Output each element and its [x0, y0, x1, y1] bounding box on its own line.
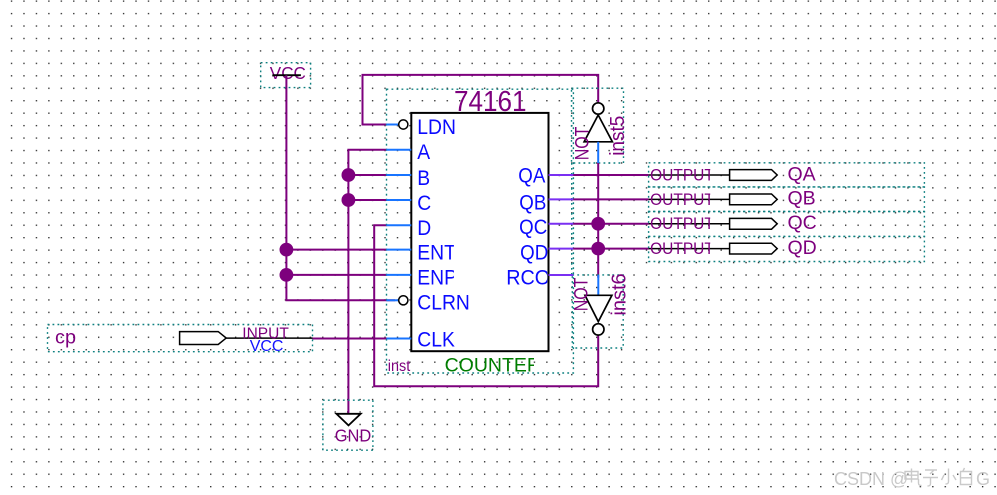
wire LDN feedback from inst5 output: [363, 75, 599, 125]
junction dot C: [342, 193, 356, 207]
ground symbol GND: [323, 400, 373, 450]
wire QD to output: [549, 248, 649, 250]
wire C branch: [348, 199, 387, 201]
pin LDN stub + bubble: [387, 124, 399, 126]
NOT gate inst6: [570, 273, 630, 348]
symbol name COUNTER: [445, 354, 541, 376]
wire inst5/inst6 input net: [597, 163, 599, 278]
svg-text:OUTPUT: OUTPUT: [650, 167, 714, 185]
svg-text:inst6: inst6: [609, 273, 631, 315]
wire D feedback from inst6 output: [374, 225, 598, 386]
input pin cp: [48, 325, 313, 356]
wire QA to output: [549, 174, 649, 176]
pin RCO label: [506, 266, 550, 290]
wire QB to output: [549, 198, 649, 200]
svg-text:B: B: [417, 168, 430, 191]
svg-text:ENP: ENP: [417, 267, 457, 290]
chip body: [411, 113, 548, 351]
svg-text:COUNTER: COUNTER: [445, 354, 541, 376]
junction dot B: [342, 168, 356, 182]
pin B stub: [387, 174, 412, 176]
pin CLRN stub + bubble: [387, 299, 399, 301]
74161 counter inst: [387, 85, 574, 377]
svg-text:CLRN: CLRN: [417, 292, 470, 315]
NOT gate inst5: [571, 88, 629, 163]
net selection box edge: [571, 163, 573, 275]
wire net A/B/C down to GND: [348, 150, 387, 414]
svg-text:QC: QC: [788, 212, 817, 234]
pin D stub: [387, 224, 412, 226]
svg-text:QD: QD: [520, 241, 548, 264]
svg-text:G: G: [976, 469, 990, 489]
output pin QA: [649, 163, 925, 187]
wire B branch: [348, 174, 387, 176]
svg-text:QB: QB: [519, 191, 546, 214]
svg-text:C: C: [417, 193, 431, 216]
junction dot QD net: [591, 242, 605, 256]
svg-text:OUTPUT: OUTPUT: [650, 216, 714, 234]
pin stub RCO unconnected: [549, 274, 574, 276]
svg-text:GND: GND: [335, 426, 372, 446]
wire QC to output: [549, 223, 649, 225]
output pin QB: [649, 187, 925, 212]
power symbol VCC: [261, 62, 311, 87]
svg-text:CSDN @: CSDN @: [834, 469, 908, 489]
output pin QD: [649, 236, 925, 261]
svg-text:inst5: inst5: [607, 116, 630, 156]
wire ENT branch: [286, 249, 387, 251]
pin CLK stub: [387, 338, 412, 340]
svg-text:QB: QB: [788, 188, 816, 210]
svg-text:OUTPUT: OUTPUT: [650, 191, 714, 209]
svg-text:inst: inst: [388, 358, 411, 376]
wire CLK from cp: [313, 338, 388, 340]
svg-text:QA: QA: [518, 164, 546, 187]
svg-text:QC: QC: [519, 216, 547, 239]
svg-text:cp: cp: [55, 327, 76, 349]
svg-text:74161: 74161: [454, 85, 527, 118]
svg-text:A: A: [417, 142, 430, 165]
pin ENT stub: [387, 249, 412, 251]
pin A stub: [387, 149, 412, 151]
svg-text:RCO: RCO: [506, 266, 550, 290]
junction dot ENT/VCC: [280, 243, 294, 257]
junction dot ENP/VCC: [280, 268, 294, 282]
svg-text:QD: QD: [788, 237, 817, 259]
svg-text:D: D: [417, 218, 431, 241]
svg-text:NOT: NOT: [571, 126, 593, 160]
output pin QC: [649, 212, 925, 237]
svg-text:VCC: VCC: [250, 338, 284, 355]
svg-text:VCC: VCC: [270, 62, 306, 83]
wire ENP branch: [286, 274, 387, 276]
svg-text:ENT: ENT: [417, 242, 456, 265]
pin ENP stub: [387, 274, 412, 276]
wire VCC stem down to CLRN: [286, 75, 395, 300]
junction dot QC net: [591, 217, 605, 231]
svg-text:CLK: CLK: [417, 329, 455, 352]
svg-text:NOT: NOT: [570, 277, 592, 311]
svg-text:QA: QA: [788, 163, 816, 185]
svg-text:LDN: LDN: [417, 117, 456, 140]
pin C stub: [387, 199, 412, 201]
svg-text:OUTPUT: OUTPUT: [650, 241, 714, 259]
